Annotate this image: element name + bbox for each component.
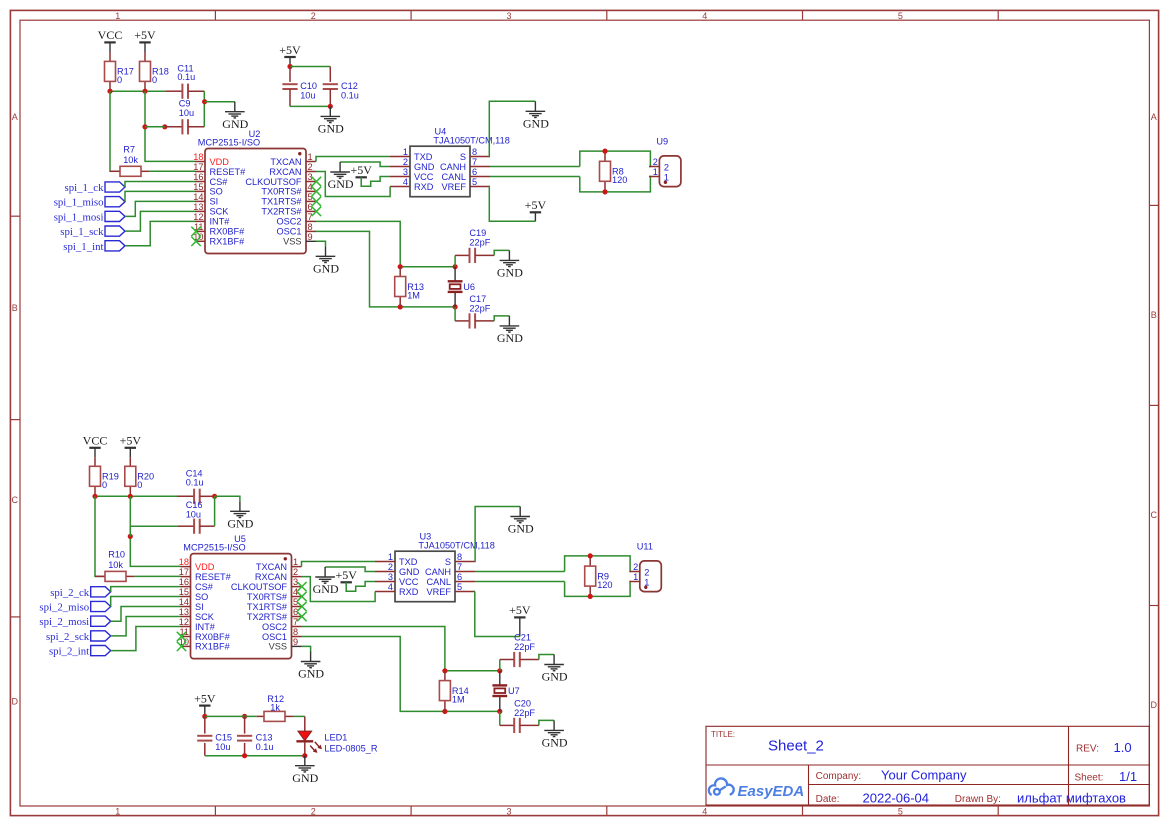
wire CANL — [490, 176, 580, 178]
LED arrows — [310, 742, 320, 752]
svg-text:1: 1 — [403, 147, 408, 157]
junction — [588, 553, 593, 558]
svg-text:5: 5 — [457, 582, 462, 592]
svg-text:1: 1 — [633, 572, 638, 582]
svg-text:LED-0805_R: LED-0805_R — [324, 743, 377, 753]
pin 3 VCC — [375, 581, 395, 583]
svg-text:GND: GND — [399, 567, 420, 577]
svg-text:2: 2 — [633, 562, 638, 572]
pin 12 INT# — [195, 220, 205, 222]
svg-text:16: 16 — [193, 172, 203, 182]
svg-text:7: 7 — [308, 212, 313, 222]
pin 1 TXD — [375, 561, 395, 563]
pin 17 RESET# — [195, 171, 205, 173]
svg-text:SI: SI — [195, 602, 204, 612]
svg-text:2: 2 — [653, 157, 658, 167]
pin 7 CANH — [455, 571, 475, 573]
svg-text:GND: GND — [313, 582, 339, 596]
wire R12 to LED — [294, 715, 305, 717]
svg-text:+5V: +5V — [525, 198, 547, 212]
ground GND (C19) — [497, 250, 523, 279]
wire spi_1_ck to CS# — [125, 182, 195, 188]
svg-text:3: 3 — [506, 11, 511, 21]
resistor R10 — [95, 550, 134, 582]
pin 13 SCK — [195, 210, 205, 212]
wire RXCAN to RXD — [316, 172, 390, 197]
svg-text:1M: 1M — [407, 290, 420, 300]
pin 7 OSC2 — [306, 220, 316, 222]
junction — [242, 714, 247, 719]
capacitor C17 plates — [470, 313, 476, 328]
wire +5V to VCC pin3 (2) — [346, 582, 375, 592]
svg-text:1: 1 — [115, 807, 120, 817]
wire R7 to RESET# — [149, 170, 195, 172]
svg-text:CANL: CANL — [441, 172, 466, 182]
svg-text:17: 17 — [179, 567, 189, 577]
pin 7 CANH — [470, 166, 490, 168]
resistor R13 — [395, 267, 424, 307]
power flag +5V (U3 VCC) — [335, 568, 357, 582]
junction — [242, 753, 247, 758]
svg-text:1: 1 — [308, 152, 313, 162]
wire C9 left lead — [165, 126, 182, 128]
pin 6 CANL — [455, 581, 475, 583]
ground GND (rail 2) — [227, 501, 253, 530]
svg-text:0.1u: 0.1u — [186, 478, 204, 488]
capacitor C13 plates — [237, 736, 252, 741]
svg-text:0.1u: 0.1u — [177, 72, 195, 82]
svg-text:2: 2 — [403, 157, 408, 167]
svg-text:16: 16 — [179, 577, 189, 587]
svg-text:CANH: CANH — [440, 162, 466, 172]
ground GND (C20) — [542, 720, 568, 749]
svg-text:TXD: TXD — [399, 557, 418, 567]
svg-text:GND: GND — [542, 736, 568, 750]
wire C16 tap — [130, 526, 178, 536]
svg-text:18: 18 — [179, 557, 189, 567]
svg-text:2: 2 — [311, 807, 316, 817]
svg-text:TITLE:: TITLE: — [711, 730, 735, 739]
wire spi_2_int to INT# — [111, 627, 181, 651]
resistor R10 body — [105, 571, 126, 581]
svg-text:3: 3 — [403, 167, 408, 177]
svg-text:SCK: SCK — [210, 207, 230, 217]
svg-text:GND: GND — [508, 522, 534, 536]
svg-text:GND: GND — [523, 117, 549, 131]
capacitor C17 — [454, 307, 456, 321]
connector U11 — [629, 541, 661, 591]
svg-text:VSS: VSS — [269, 642, 287, 652]
svg-text:VREF: VREF — [426, 587, 451, 597]
net flag spi_2_mosi — [39, 616, 110, 628]
pin 2 RXCAN — [306, 171, 316, 173]
svg-text:1: 1 — [388, 552, 393, 562]
svg-text:1: 1 — [653, 167, 658, 177]
power flag +5V (C10) — [279, 43, 301, 57]
svg-text:TXD: TXD — [414, 152, 433, 162]
svg-text:1/1: 1/1 — [1119, 769, 1137, 784]
svg-text:7: 7 — [472, 157, 477, 167]
capacitor C9 — [182, 119, 188, 134]
svg-text:120: 120 — [597, 580, 612, 590]
net flag spi_2_int — [49, 646, 111, 658]
wire C14 left lead — [177, 495, 194, 497]
junction — [442, 709, 447, 714]
svg-text:22pF: 22pF — [469, 304, 490, 314]
svg-text:8: 8 — [472, 147, 477, 157]
IC U2 MCP2515-I/SO — [191, 129, 321, 254]
svg-text:GND: GND — [497, 266, 523, 280]
pin 8 OSC1 — [292, 636, 302, 638]
junction — [442, 668, 447, 673]
wire C16 left lead — [178, 525, 194, 527]
svg-text:17: 17 — [193, 162, 203, 172]
svg-text:CS#: CS# — [210, 177, 229, 187]
wire VREF to +5V — [489, 187, 535, 222]
wire CAN loop bottom — [580, 177, 651, 192]
pin 1 TXCAN — [292, 566, 302, 568]
svg-text:spi_1_mosi: spi_1_mosi — [54, 211, 104, 223]
junction — [128, 494, 133, 499]
svg-text:U7: U7 — [508, 686, 520, 696]
capacitor C14 — [194, 489, 200, 504]
svg-text:4: 4 — [702, 807, 707, 817]
svg-text:spi_1_int: spi_1_int — [63, 241, 103, 253]
svg-text:INT#: INT# — [210, 217, 231, 227]
wire C16 riser — [214, 496, 216, 526]
svg-text:REV:: REV: — [1076, 744, 1099, 755]
svg-text:3: 3 — [506, 807, 511, 817]
svg-text:3: 3 — [388, 572, 393, 582]
net flag spi_1_int — [63, 241, 125, 253]
svg-text:TX2RTS#: TX2RTS# — [261, 207, 302, 217]
svg-text:C12: C12 — [341, 81, 358, 91]
wire C10 bottom lead — [289, 89, 291, 106]
svg-text:GND: GND — [222, 117, 248, 131]
pin 5 TX1RTS# — [292, 606, 302, 608]
svg-text:C20: C20 — [514, 699, 531, 709]
svg-text:TXCAN: TXCAN — [270, 157, 301, 167]
pin 4 RXD — [390, 186, 410, 188]
wire spi_1_sck to SCK — [125, 211, 195, 231]
junction — [497, 668, 502, 673]
svg-text:10k: 10k — [108, 560, 123, 570]
svg-text:S: S — [445, 557, 451, 567]
svg-text:15: 15 — [179, 587, 189, 597]
svg-text:+5V: +5V — [194, 691, 216, 705]
svg-text:VREF: VREF — [441, 182, 466, 192]
svg-text:VCC: VCC — [83, 434, 108, 448]
svg-text:ильфат мифтахов: ильфат мифтахов — [1017, 790, 1126, 805]
wire top row — [445, 670, 500, 672]
svg-text:RXCAN: RXCAN — [269, 167, 301, 177]
svg-text:Drawn By:: Drawn By: — [955, 794, 1001, 805]
svg-text:+5V: +5V — [509, 603, 531, 617]
junction — [142, 124, 147, 129]
svg-text:9: 9 — [293, 637, 298, 647]
junction — [453, 304, 458, 309]
wire bottom row — [400, 306, 455, 308]
wire spi_2_ck to CS# — [111, 587, 181, 592]
ground GND (C10/C12) — [318, 106, 344, 135]
power flag +5V — [134, 28, 156, 42]
wire +5V column to pin18 (2) — [130, 496, 180, 566]
svg-text:RXD: RXD — [414, 182, 434, 192]
svg-text:0: 0 — [137, 480, 142, 490]
junction — [453, 264, 458, 269]
pin 2 GND — [390, 166, 410, 168]
IC U5 MCP2515-I/SO — [177, 534, 307, 659]
junction — [602, 189, 607, 194]
ruler ticks left/right — [10, 215, 20, 217]
title block — [706, 726, 1149, 805]
capacitor C10 — [282, 84, 297, 89]
net flag spi_2_miso — [39, 601, 110, 613]
ground GND (U4 pin2) — [328, 162, 354, 191]
pin 16 CS# — [181, 586, 191, 588]
wire bottom row — [445, 710, 500, 712]
wire S pin8 to GND (2) — [475, 507, 520, 562]
svg-text:OSC2: OSC2 — [262, 622, 287, 632]
svg-text:VCC: VCC — [98, 28, 123, 42]
svg-text:C: C — [1151, 510, 1158, 520]
resistor R12 — [257, 694, 294, 722]
svg-text:Date:: Date: — [816, 794, 840, 805]
svg-text:GND: GND — [313, 262, 339, 276]
pin 13 SCK — [181, 616, 191, 618]
junction — [212, 494, 217, 499]
svg-text:14: 14 — [193, 192, 203, 202]
pin 4 TX0RTS# — [292, 596, 302, 598]
svg-text:TJA1050T/CM,118: TJA1050T/CM,118 — [418, 540, 494, 550]
svg-text:0: 0 — [117, 75, 122, 85]
junction — [497, 709, 502, 714]
svg-text:SI: SI — [210, 197, 219, 207]
connector U9 — [649, 136, 681, 186]
svg-text:OSC1: OSC1 — [262, 632, 287, 642]
svg-text:R10: R10 — [108, 550, 125, 560]
svg-text:TX0RTS#: TX0RTS# — [261, 187, 302, 197]
svg-text:C13: C13 — [256, 732, 273, 742]
wire OSC1 — [316, 231, 400, 307]
ground GND (U3 S) — [508, 507, 534, 536]
ruler ticks top/bottom — [214, 10, 216, 20]
svg-text:Your Company: Your Company — [881, 768, 967, 783]
svg-text:22pF: 22pF — [469, 238, 490, 248]
pin 8 S — [470, 156, 490, 158]
svg-text:GND: GND — [542, 670, 568, 684]
svg-text:VDD: VDD — [210, 157, 230, 167]
LED LED1 — [296, 716, 377, 755]
svg-text:VCC: VCC — [414, 172, 434, 182]
wire spi_2_mosi to SI — [111, 607, 181, 622]
wire spi_2_miso to SO — [111, 597, 181, 607]
power flag +5V (VREF) — [525, 198, 547, 212]
svg-text:RX0BF#: RX0BF# — [210, 227, 246, 237]
svg-text:A: A — [12, 112, 18, 122]
capacitor C21 plates — [514, 652, 520, 667]
svg-text:+5V: +5V — [350, 163, 372, 177]
ground GND (U2 VSS) — [313, 246, 339, 275]
pin 6 TX2RTS# — [292, 616, 302, 618]
capacitor C19 plates — [470, 248, 476, 263]
svg-text:C19: C19 — [469, 228, 486, 238]
crystal U6 — [448, 281, 475, 292]
pin 9 VSS — [292, 645, 302, 647]
wire TXCAN to TXD (2) — [302, 562, 376, 567]
pin 11 RX0BF# — [181, 636, 191, 638]
svg-text:B: B — [1151, 310, 1157, 320]
pin 6 TX2RTS# — [306, 210, 316, 212]
pin 1 TXD — [390, 156, 410, 158]
wire C11 right lead — [188, 90, 204, 92]
svg-text:SCK: SCK — [195, 612, 215, 622]
pin 3 CLKOUTSOF — [292, 586, 302, 588]
svg-text:U6: U6 — [463, 282, 475, 292]
svg-text:spi_2_int: spi_2_int — [49, 646, 89, 658]
svg-text:9: 9 — [308, 232, 313, 242]
svg-text:SO: SO — [210, 187, 223, 197]
svg-text:SO: SO — [195, 592, 208, 602]
wire C9 tap — [145, 126, 165, 128]
power flag VCC — [98, 28, 123, 42]
junction — [287, 64, 292, 69]
pin 4 RXD — [375, 591, 395, 593]
junction — [398, 264, 403, 269]
junction — [202, 714, 207, 719]
svg-text:13: 13 — [179, 607, 189, 617]
pin 15 SO — [195, 190, 205, 192]
svg-text:15: 15 — [193, 182, 203, 192]
pin 5 VREF — [455, 591, 475, 593]
svg-text:S: S — [460, 152, 466, 162]
svg-text:10k: 10k — [123, 155, 138, 165]
svg-text:GND: GND — [414, 162, 435, 172]
capacitor C21 — [499, 660, 501, 671]
wire spi_1_mosi to SI — [125, 201, 195, 216]
pin 10 RX1BF# — [195, 240, 205, 242]
svg-text:4: 4 — [388, 582, 393, 592]
svg-text:6: 6 — [457, 572, 462, 582]
svg-text:4: 4 — [702, 11, 707, 21]
resistor R19 — [90, 457, 119, 496]
svg-text:LED1: LED1 — [324, 732, 347, 742]
svg-text:Sheet_2: Sheet_2 — [768, 738, 824, 755]
svg-text:MCP2515-I/SO: MCP2515-I/SO — [198, 138, 260, 148]
wire VREF to +5V (2) — [475, 592, 520, 637]
svg-text:1.0: 1.0 — [1114, 740, 1132, 755]
svg-text:RX1BF#: RX1BF# — [210, 237, 246, 247]
pin 16 CS# — [195, 181, 205, 183]
svg-text:6: 6 — [472, 167, 477, 177]
svg-text:GND: GND — [292, 771, 318, 785]
svg-text:+5V: +5V — [120, 434, 142, 448]
wire CANH (2) — [475, 571, 565, 573]
pin 3 CLKOUTSOF — [306, 181, 316, 183]
svg-text:RXD: RXD — [399, 587, 419, 597]
pin 18 VDD — [181, 566, 191, 568]
svg-text:C: C — [12, 495, 19, 505]
svg-text:0.1u: 0.1u — [256, 742, 274, 752]
pin 10 RX1BF# — [181, 645, 191, 647]
pin 5 VREF — [470, 186, 490, 188]
svg-text:8: 8 — [308, 222, 313, 232]
pin 9 VSS — [306, 240, 316, 242]
resistor R14 — [439, 671, 468, 712]
svg-text:CANH: CANH — [425, 567, 451, 577]
net flag spi_1_miso — [54, 197, 125, 209]
svg-text:EasyEDA: EasyEDA — [738, 783, 805, 800]
wire CAN loop top — [580, 151, 651, 166]
pin 14 SI — [195, 200, 205, 202]
junction — [302, 753, 307, 758]
svg-text:spi_2_ck: spi_2_ck — [50, 587, 90, 599]
wire OSC2 (2) — [302, 627, 445, 671]
wire spi_2_sck to SCK — [111, 617, 181, 636]
resistor R12 body — [264, 711, 285, 721]
junction — [162, 124, 167, 129]
wire VDD rail 2 — [95, 495, 177, 497]
wire spi_1_miso to SO — [125, 191, 195, 201]
capacitor C20 — [499, 711, 501, 725]
svg-text:18: 18 — [193, 152, 203, 162]
svg-text:C21: C21 — [514, 632, 531, 642]
svg-text:13: 13 — [193, 202, 203, 212]
resistor R7 — [110, 145, 149, 177]
ground GND (U3 pin2) — [313, 567, 339, 596]
junction — [128, 534, 133, 539]
pin 2 GND — [375, 571, 395, 573]
svg-text:VSS: VSS — [283, 237, 301, 247]
pin 8 S — [455, 561, 475, 563]
no-connect marks — [191, 227, 200, 236]
svg-text:spi_1_miso: spi_1_miso — [54, 197, 104, 209]
wire C11 left lead — [166, 90, 182, 92]
svg-text:D: D — [12, 697, 19, 707]
svg-text:spi_1_sck: spi_1_sck — [60, 226, 104, 238]
svg-text:GND: GND — [318, 122, 344, 136]
svg-text:0: 0 — [102, 480, 107, 490]
resistor R17 — [105, 52, 134, 91]
wire S pin8 to GND — [489, 101, 535, 156]
svg-text:VDD: VDD — [195, 562, 215, 572]
resistor R8 — [600, 151, 628, 192]
wire C9 right lead — [188, 126, 204, 128]
svg-text:GND: GND — [227, 517, 253, 531]
svg-text:spi_2_miso: spi_2_miso — [39, 602, 89, 614]
svg-text:TX1RTS#: TX1RTS# — [247, 602, 288, 612]
svg-text:B: B — [12, 303, 18, 313]
ground GND (U4 S) — [523, 101, 549, 130]
svg-text:C15: C15 — [215, 732, 232, 742]
pin 12 INT# — [181, 626, 191, 628]
wire C14 right lead — [200, 495, 215, 497]
svg-text:GND: GND — [298, 667, 324, 681]
wire +5V column to pin18 — [145, 91, 195, 161]
resistor R20 — [125, 457, 154, 496]
wire C12 bottom lead — [329, 89, 331, 106]
net flag spi_2_ck — [50, 587, 111, 599]
pin 15 SO — [181, 596, 191, 598]
power flag +5V (U4 VCC) — [350, 163, 372, 177]
wire bottom — [290, 105, 330, 107]
pin 17 RESET# — [181, 576, 191, 578]
svg-text:22pF: 22pF — [514, 708, 535, 718]
svg-text:MCP2515-I/SO: MCP2515-I/SO — [183, 543, 245, 553]
svg-text:D: D — [1151, 700, 1158, 710]
svg-text:Company:: Company: — [816, 771, 862, 782]
svg-text:14: 14 — [179, 597, 189, 607]
